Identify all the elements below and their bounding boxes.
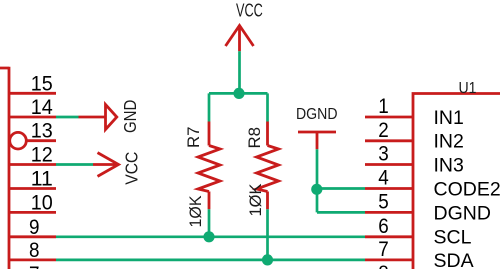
svg-text:3: 3 (378, 143, 389, 166)
svg-text:8: 8 (378, 262, 389, 269)
svg-text:5: 5 (378, 190, 389, 213)
svg-text:R8: R8 (246, 127, 264, 149)
svg-text:7: 7 (378, 238, 389, 261)
svg-text:GND: GND (120, 100, 140, 133)
svg-text:15: 15 (31, 72, 53, 95)
svg-text:DGND: DGND (296, 106, 338, 123)
svg-text:U1: U1 (459, 80, 477, 97)
svg-text:SDA: SDA (434, 250, 474, 269)
svg-text:DGND: DGND (434, 202, 491, 224)
svg-text:4: 4 (378, 167, 389, 190)
svg-text:1ØK: 1ØK (186, 195, 205, 228)
svg-text:SCL: SCL (434, 227, 472, 249)
svg-text:10: 10 (31, 191, 53, 214)
svg-text:8: 8 (29, 239, 40, 262)
svg-text:IN3: IN3 (434, 154, 464, 176)
svg-text:1ØK: 1ØK (246, 183, 265, 217)
svg-text:1: 1 (378, 95, 389, 118)
svg-text:13: 13 (31, 120, 53, 143)
svg-text:12: 12 (31, 144, 53, 167)
svg-text:R7: R7 (185, 127, 203, 149)
svg-text:VCC: VCC (121, 152, 141, 185)
svg-text:6: 6 (378, 215, 389, 238)
svg-text:14: 14 (31, 96, 53, 119)
svg-text:IN1: IN1 (434, 107, 464, 129)
svg-text:VCC: VCC (236, 0, 263, 20)
svg-text:7: 7 (29, 263, 40, 269)
svg-text:2: 2 (378, 119, 389, 142)
svg-text:9: 9 (29, 216, 40, 239)
svg-text:IN2: IN2 (434, 131, 464, 153)
svg-text:CODE2: CODE2 (434, 178, 500, 200)
svg-text:11: 11 (31, 168, 53, 191)
